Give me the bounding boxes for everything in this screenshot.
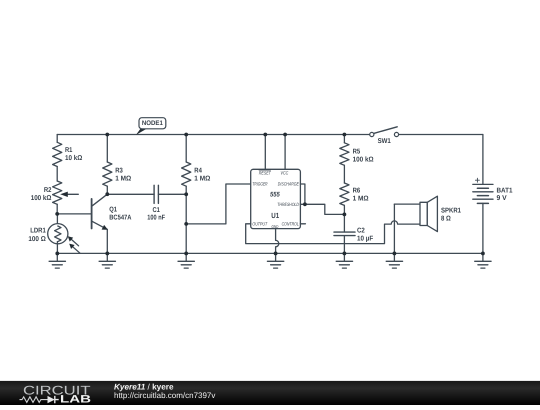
ground at x=394.4 bbox=[386, 253, 402, 268]
speaker SPKR1 cone bbox=[427, 196, 437, 231]
node junction dot bbox=[343, 213, 347, 217]
svg-text:NODE1: NODE1 bbox=[142, 120, 163, 127]
wire top rail right segment bbox=[399, 134, 483, 136]
node junction dot bbox=[105, 133, 109, 137]
svg-text:10 µF: 10 µF bbox=[357, 235, 374, 242]
wire DISCHARGE pin bbox=[300, 184, 305, 204]
svg-text:THRESHOLD: THRESHOLD bbox=[277, 202, 299, 207]
svg-text:CONTROL: CONTROL bbox=[282, 221, 300, 226]
footer bar bbox=[0, 381, 540, 405]
CircuitLab logo diode bbox=[48, 396, 55, 403]
wire speaker top terminal bbox=[394, 203, 420, 205]
svg-text:R5: R5 bbox=[353, 148, 361, 155]
svg-text:R3: R3 bbox=[115, 167, 123, 174]
node junction dot bbox=[184, 222, 188, 226]
wire R5 top lead bbox=[343, 135, 345, 143]
ground at x=482.9 bbox=[475, 253, 491, 268]
wire Q1 emitter to ground rail bbox=[106, 229, 108, 253]
svg-text:1 MΩ: 1 MΩ bbox=[194, 175, 210, 182]
resistor R4 bbox=[182, 162, 191, 186]
switch SW1 lever bbox=[374, 127, 398, 134]
svg-text:VCC: VCC bbox=[281, 171, 289, 176]
node junction dot bbox=[263, 133, 267, 137]
transistor Q1 emitter with arrow bbox=[92, 221, 108, 229]
wire CONTROL pin stub bbox=[300, 223, 305, 225]
LDR1 light arrow 1 bbox=[71, 239, 79, 246]
resistor R2 (rheostat) bbox=[53, 181, 62, 204]
resistor R3 bbox=[103, 162, 112, 186]
resistor R1 bbox=[53, 142, 62, 166]
wire trigger net bbox=[186, 184, 251, 224]
R2 wiper arrow bbox=[67, 193, 79, 195]
svg-text:1 MΩ: 1 MΩ bbox=[353, 196, 369, 203]
node junction dot bbox=[184, 192, 188, 196]
node junction dot bbox=[184, 252, 188, 256]
svg-text:LDR1: LDR1 bbox=[30, 228, 46, 235]
wire THRESHOLD pin stub bbox=[300, 203, 305, 205]
wire threshold net to R6/C2 bbox=[305, 204, 345, 214]
svg-text:DISCHARGE: DISCHARGE bbox=[278, 182, 300, 187]
wire R1-R2 link bbox=[56, 167, 58, 182]
svg-text:8 Ω: 8 Ω bbox=[441, 215, 451, 222]
node junction dot bbox=[55, 252, 59, 256]
svg-text:100 Ω: 100 Ω bbox=[28, 236, 46, 243]
wire OUTPUT net to speaker (with hop) bbox=[246, 221, 420, 244]
wire R4 top lead bbox=[185, 135, 187, 163]
svg-text:Kyere11 / kyere: Kyere11 / kyere bbox=[114, 382, 174, 391]
node junction dot bbox=[303, 202, 307, 206]
wire speaker ground drop bbox=[393, 204, 395, 253]
svg-text:555: 555 bbox=[270, 191, 280, 198]
svg-text:R6: R6 bbox=[353, 188, 361, 195]
node junction dot bbox=[283, 133, 287, 137]
node junction dot bbox=[105, 192, 109, 196]
wire LDR top lead bbox=[56, 214, 58, 226]
svg-text:BAT1: BAT1 bbox=[497, 187, 513, 194]
svg-text:9 V: 9 V bbox=[497, 195, 508, 202]
CircuitLab logo resistor squiggle bbox=[20, 397, 48, 403]
wire GND pin to rail (with hop) bbox=[276, 229, 279, 254]
LDR1 light arrow 2 bbox=[72, 246, 80, 253]
wire R4 bottom to ground rail bbox=[185, 186, 187, 253]
svg-text:RESET: RESET bbox=[259, 171, 272, 176]
op-amp U1 555 body bbox=[251, 169, 301, 228]
ground at x=57.3 bbox=[49, 253, 65, 268]
capacitor C1 left wire bbox=[107, 193, 154, 195]
svg-text:C2: C2 bbox=[357, 227, 365, 234]
ground at x=275.6 bbox=[267, 253, 283, 268]
wire base node to Q1 base bbox=[57, 213, 91, 215]
node NODE1 tag box bbox=[139, 118, 166, 129]
photoresistor LDR1 bbox=[48, 224, 68, 244]
node junction dot bbox=[343, 133, 347, 137]
svg-text:R4: R4 bbox=[194, 167, 202, 174]
wire C2 bottom lead bbox=[343, 236, 345, 254]
node NODE1 tag pointer bbox=[136, 128, 148, 135]
battery BAT1 bottom wire bbox=[482, 203, 484, 253]
svg-text:100 kΩ: 100 kΩ bbox=[353, 155, 374, 163]
wire bottom ground rail bbox=[57, 252, 483, 254]
svg-text:1 MΩ: 1 MΩ bbox=[115, 175, 131, 182]
svg-text:100 kΩ: 100 kΩ bbox=[31, 194, 52, 202]
battery BAT1 cells bbox=[473, 183, 493, 185]
node junction dot bbox=[55, 212, 59, 216]
svg-text:SPKR1: SPKR1 bbox=[441, 208, 461, 215]
node junction dot bbox=[274, 252, 278, 256]
node junction dot bbox=[481, 252, 485, 256]
capacitor C1 plates bbox=[153, 185, 155, 203]
svg-text:C1: C1 bbox=[153, 207, 160, 214]
svg-text:10 kΩ: 10 kΩ bbox=[65, 154, 83, 162]
svg-text:SW1: SW1 bbox=[378, 138, 391, 145]
svg-text:R2: R2 bbox=[44, 187, 52, 194]
wire top rail left segment bbox=[57, 134, 370, 136]
ground at x=344.4 bbox=[336, 253, 352, 268]
resistor R6 bbox=[340, 183, 349, 205]
switch SW1 terminals bbox=[370, 132, 374, 136]
svg-text:LAB: LAB bbox=[60, 394, 91, 406]
transistor Q1 base bar bbox=[91, 199, 93, 229]
wire LDR bottom lead bbox=[56, 242, 58, 254]
svg-text:100 nF: 100 nF bbox=[147, 215, 165, 222]
wire R1 top lead bbox=[56, 135, 58, 143]
capacitor C2 plates bbox=[334, 231, 355, 233]
node junction dot bbox=[343, 252, 347, 256]
svg-text:U1: U1 bbox=[271, 211, 279, 220]
transistor Q1 collector bbox=[92, 194, 108, 206]
svg-text:GND: GND bbox=[271, 224, 278, 229]
wire VCC pin bbox=[284, 135, 286, 170]
battery BAT1 top wire bbox=[482, 135, 484, 185]
svg-text:http://circuitlab.com/cn7397v: http://circuitlab.com/cn7397v bbox=[114, 391, 215, 400]
svg-text:R1: R1 bbox=[65, 147, 72, 154]
battery BAT1 plus sign bbox=[475, 178, 479, 182]
resistor R5 bbox=[340, 143, 349, 166]
node junction dot bbox=[105, 252, 109, 256]
speaker SPKR1 body bbox=[420, 202, 427, 225]
wire R5-R6 link bbox=[343, 165, 345, 183]
wire C2 top lead bbox=[343, 214, 345, 232]
wire R6 bottom lead bbox=[343, 205, 345, 214]
capacitor C1 right wire bbox=[158, 193, 186, 195]
ground at x=186.2 bbox=[178, 253, 194, 268]
svg-text:Q1: Q1 bbox=[109, 206, 117, 213]
wire R3 top lead bbox=[106, 135, 108, 163]
ground at x=107.3 bbox=[99, 253, 115, 268]
node junction dot bbox=[393, 252, 397, 256]
svg-text:OUTPUT: OUTPUT bbox=[252, 221, 268, 226]
svg-text:BC547A: BC547A bbox=[109, 215, 131, 222]
wire R2 bottom lead to base node bbox=[56, 204, 58, 214]
svg-text:TRIGGER: TRIGGER bbox=[252, 182, 268, 187]
wire RESET pin bbox=[264, 135, 266, 170]
wire R3 bottom lead bbox=[106, 186, 108, 194]
node junction dot bbox=[184, 133, 188, 137]
